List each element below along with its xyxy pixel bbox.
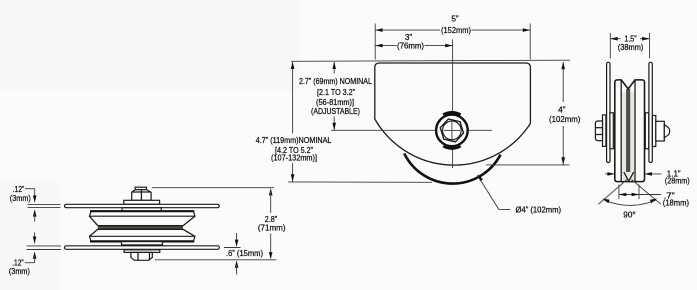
- svg-text:(ADJUSTABLE): (ADJUSTABLE): [311, 107, 360, 116]
- wheel arc (front): [404, 153, 500, 183]
- bottom washer: [124, 250, 160, 253]
- left washer B: [610, 113, 613, 149]
- groove band: [98, 226, 183, 230]
- bracket bottom arc: [375, 119, 531, 165]
- right nut: [656, 121, 665, 141]
- svg-text:4.7” (119mm)NOMINAL: 4.7” (119mm)NOMINAL: [256, 136, 332, 145]
- 90deg flank line left: [598, 180, 627, 205]
- bottom reference line from nut bottom: [155, 259, 277, 261]
- wheel flank shading: [622, 92, 634, 180]
- svg-text:(18mm): (18mm): [663, 198, 689, 207]
- groove bottom V: [624, 172, 629, 181]
- dim 1.5 line: [610, 38, 620, 40]
- bottom nut: [131, 252, 152, 260]
- groove lower flank: [90, 229, 98, 236]
- svg-text:Ø4” (102mm): Ø4” (102mm): [516, 206, 562, 215]
- axle inner circle: [443, 121, 462, 140]
- svg-text:(76mm): (76mm): [397, 42, 424, 51]
- svg-text:2.7” (69mm) NOMINAL: 2.7” (69mm) NOMINAL: [299, 77, 372, 86]
- svg-text:.6” (15mm): .6” (15mm): [226, 249, 263, 258]
- dim 4in line: [562, 62, 564, 102]
- svg-text:5”: 5”: [451, 15, 459, 24]
- dim 5in ext line left: [374, 24, 376, 60]
- wheel top flange: [90, 211, 195, 216]
- top reference extension line: [291, 60, 570, 61]
- right strap (side): [649, 62, 652, 162]
- horizontal centerline: [331, 129, 492, 131]
- dim .12 top leader and arrows: [25, 188, 35, 190]
- 90deg flank line right: [632, 180, 662, 205]
- axle top crescent: [443, 113, 460, 115]
- bottom plate: [122, 242, 163, 245]
- wheel bottom flange: [90, 236, 195, 241]
- groove upper flank: [90, 216, 98, 226]
- svg-text:(71mm): (71mm): [258, 223, 286, 232]
- dim .7 ext lines: [618, 185, 620, 200]
- bracket outline: [375, 63, 531, 124]
- dim 1.5 ext lines: [609, 33, 611, 59]
- dim .12 bottom leader and arrows: [34, 232, 36, 237]
- dim .7 line: [619, 194, 639, 196]
- rim inner edge right: [634, 80, 636, 181]
- top reference line from nut top: [152, 187, 274, 189]
- svg-text:(107-132mm)]: (107-132mm)]: [271, 154, 317, 163]
- rim inner edge left: [620, 80, 622, 181]
- top nut cap: [135, 187, 146, 189]
- 90deg arc: [605, 200, 656, 205]
- dim 4.7in line: [292, 62, 294, 134]
- svg-text:(3mm): (3mm): [9, 267, 30, 276]
- dim 1.1: [605, 173, 615, 175]
- svg-text:[2.1 TO 3.2”: [2.1 TO 3.2”: [317, 88, 355, 97]
- svg-text:4”: 4”: [558, 105, 566, 114]
- dim 5in line: [375, 29, 440, 31]
- dim .6: [236, 233, 238, 241]
- bolt head: [595, 121, 602, 141]
- wheel groove root band: [626, 89, 630, 172]
- axle bottom crescent: [443, 146, 460, 148]
- svg-text:(3mm): (3mm): [10, 194, 31, 203]
- axle hex nut: [440, 119, 463, 142]
- svg-text:(102mm): (102mm): [549, 115, 581, 124]
- vertical centerline: [452, 40, 454, 169]
- top strap: [65, 204, 220, 207]
- axle outer circle: [436, 115, 468, 147]
- crosshair ticks: [444, 129, 460, 131]
- bottom reference line under wheel: [288, 181, 432, 183]
- svg-text:.12”: .12”: [13, 185, 25, 194]
- left strap (side): [607, 62, 610, 162]
- dim 5in ext line right: [529, 24, 531, 60]
- bottom strap: [65, 246, 220, 250]
- bolt tip: [664, 125, 669, 138]
- left washer A: [603, 115, 606, 146]
- top washer: [124, 200, 160, 204]
- bottom right reference line: [486, 164, 570, 166]
- dim 3in line: [375, 45, 396, 47]
- svg-text:(28mm): (28mm): [665, 176, 690, 185]
- dim 2.7in line: [333, 62, 335, 74]
- svg-text:(38mm): (38mm): [618, 43, 644, 52]
- svg-text:90°: 90°: [623, 210, 635, 219]
- top nut body: [132, 190, 151, 201]
- dia 4in leader: [478, 175, 511, 209]
- dim 2.8: [269, 188, 273, 195]
- wheel outline with top V notch: [615, 80, 645, 182]
- top plate: [122, 208, 161, 212]
- right washer B: [645, 113, 648, 149]
- svg-text:(56-81mm)]: (56-81mm)]: [316, 98, 354, 107]
- svg-text:(152mm): (152mm): [441, 26, 471, 35]
- right washer A: [652, 116, 655, 147]
